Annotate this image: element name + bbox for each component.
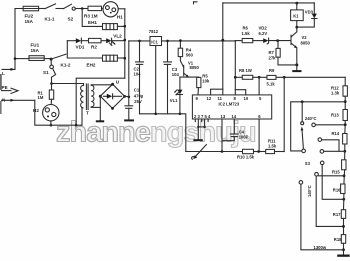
transformer core [85, 84, 87, 110]
ground (bottom right) [337, 255, 350, 257]
svg-text:1M: 1M [38, 95, 44, 100]
svg-text:13: 13 [221, 114, 226, 119]
svg-text:R13: R13 [331, 113, 339, 118]
svg-text:R9: R9 [269, 68, 275, 73]
regulator IC1 7812 [150, 37, 162, 46]
svg-text:R6: R6 [243, 26, 249, 31]
resistor R15 [342, 160, 346, 170]
svg-text:L: L [2, 71, 5, 76]
contact c5 [320, 161, 324, 165]
wire: feedback riser [283, 77, 285, 151]
ground rail [140, 114, 186, 152]
svg-text:VD1: VD1 [76, 45, 85, 50]
svg-text:H1: H1 [117, 15, 123, 20]
capacitor C4 [233, 119, 235, 134]
wire: V+ riser pin 11 [222, 3, 224, 95]
svg-text:10: 10 [244, 96, 249, 101]
svg-text:VD3: VD3 [305, 10, 314, 15]
wire: bottom neutral [35, 100, 82, 125]
resistor R13 [343, 110, 347, 121]
resistor R14 [343, 134, 347, 145]
svg-text:8050: 8050 [301, 41, 311, 46]
switch S2 [64, 4, 72, 8]
svg-text:6.2V: 6.2V [259, 31, 268, 36]
svg-text:VD2: VD2 [259, 26, 268, 31]
contact c4 [315, 172, 319, 176]
rheostat wiper [194, 145, 206, 158]
svg-text:EH1: EH1 [88, 20, 97, 25]
svg-text:1.3k: 1.3k [331, 91, 340, 96]
wire: right vertical of lamp branch [124, 9, 126, 78]
wire: riser pin 8 [234, 41, 236, 95]
svg-text:5.1k: 5.1k [267, 82, 276, 87]
svg-text:15A: 15A [25, 19, 34, 24]
capacitor C2 [139, 41, 141, 62]
stray mark [194, 2, 198, 4]
wire: VD1 branch tap [66, 41, 68, 58]
wire [118, 8, 125, 10]
svg-text:K1-1: K1-1 [45, 17, 55, 22]
resistor R18 [341, 235, 345, 244]
transistor V2 [292, 32, 297, 37]
contact c1 [312, 123, 316, 127]
svg-text:FU1: FU1 [31, 43, 40, 48]
svg-text:K1: K1 [293, 13, 299, 18]
svg-text:EH2: EH2 [87, 63, 96, 68]
svg-text:25V: 25V [134, 99, 142, 104]
relay K1 [296, 3, 298, 10]
wire: heater return [76, 78, 125, 125]
svg-text:VL2: VL2 [113, 34, 122, 39]
svg-text:10k: 10k [202, 79, 210, 84]
resistor R3 [88, 6, 102, 10]
wire [75, 8, 88, 10]
wire bridge to C1 [125, 95, 129, 97]
switch K1-2 [51, 54, 66, 59]
edge smudges [0, 74, 2, 90]
switch S1 [50, 60, 52, 65]
resistor R4 [179, 41, 181, 49]
svg-text:1.5k: 1.5k [242, 31, 251, 36]
watermark [56, 117, 256, 149]
wire: top relay feed [223, 2, 314, 4]
resistor R10 [243, 149, 254, 153]
wire: right column top [344, 77, 346, 86]
switch K1-1 [45, 4, 56, 9]
svg-text:15A: 15A [31, 48, 40, 53]
resistor R8 [235, 76, 242, 78]
lamp H2 [50, 99, 52, 104]
zener VD2 [263, 38, 268, 43]
svg-text:S2: S2 [68, 17, 74, 22]
resistor R2 [89, 38, 102, 42]
thermostat 240C [301, 102, 303, 122]
LED VL1 [179, 77, 181, 90]
svg-text:R16: R16 [333, 188, 341, 193]
svg-text:R7: R7 [269, 50, 275, 55]
svg-text:12: 12 [207, 96, 212, 101]
svg-text:S3: S3 [305, 161, 311, 166]
transformer T secondary [91, 85, 94, 107]
wire: pin 13 riser [221, 119, 223, 152]
svg-text:T: T [86, 111, 89, 116]
svg-text:V2: V2 [302, 35, 308, 40]
svg-text:560: 560 [186, 53, 194, 58]
LED VL2 [106, 38, 111, 43]
node [81, 7, 84, 10]
wire [56, 8, 64, 10]
wire: riser pin 5 [258, 77, 260, 95]
svg-text:VL1: VL1 [170, 98, 178, 103]
capacitor C3 [167, 41, 169, 62]
IC U2 LM723 [192, 95, 271, 119]
svg-text:240°C: 240°C [305, 116, 317, 121]
diode VD1 [67, 40, 76, 42]
svg-text:C1: C1 [134, 88, 140, 93]
fuse FU1 [15, 58, 29, 60]
svg-text:104: 104 [172, 72, 180, 77]
resistor R9 [267, 75, 276, 79]
resistor R12 [343, 86, 347, 96]
svg-text:U: U [116, 80, 120, 85]
svg-text:R14: R14 [332, 131, 340, 136]
svg-text:1.5k: 1.5k [268, 143, 277, 148]
svg-text:8050: 8050 [190, 65, 200, 70]
wire: bottom rail [186, 151, 243, 153]
svg-text:H2: H2 [33, 108, 39, 113]
transistor V1 [180, 57, 183, 68]
resistor R5 [197, 77, 201, 87]
svg-text:11: 11 [218, 96, 223, 101]
fuse FU2 [23, 6, 38, 11]
svg-text:R2: R2 [91, 45, 97, 50]
svg-text:100P: 100P [239, 135, 249, 140]
ground (C1) [124, 119, 134, 121]
svg-text:R10 1.5k: R10 1.5k [237, 155, 255, 160]
svg-text:104: 104 [134, 72, 142, 77]
pin 10 jog [235, 90, 245, 95]
bridge rectifier U [100, 84, 124, 108]
contact c3 [320, 150, 324, 154]
wire: pin 6 riser [258, 119, 260, 152]
thermostat 140C [299, 181, 303, 185]
svg-text:R3 1M: R3 1M [84, 14, 98, 19]
transformer T primary [81, 108, 83, 125]
svg-text:7812: 7812 [149, 29, 159, 34]
resistor R11 [266, 149, 275, 153]
svg-text:IC2 LM723: IC2 LM723 [219, 102, 240, 107]
resistor R6 [235, 40, 242, 42]
selector S3 common [302, 149, 306, 153]
contact c2 [318, 138, 322, 142]
svg-text:FU2: FU2 [25, 14, 34, 19]
resistor R17 [341, 210, 345, 219]
svg-text:1300w: 1300w [314, 245, 327, 250]
svg-text:K1-2: K1-2 [61, 63, 71, 68]
heater EH1 [82, 9, 102, 26]
ground (IC2) [197, 119, 199, 127]
wire: mains left vertical [2, 9, 23, 70]
svg-text:470μ: 470μ [134, 94, 144, 99]
resistor R16 [341, 184, 345, 194]
resistor R1 [49, 90, 53, 99]
svg-text:IC1: IC1 [151, 39, 158, 44]
ground (transformer) [99, 96, 101, 120]
svg-text:140°C: 140°C [307, 185, 312, 197]
svg-text:S1: S1 [43, 70, 49, 75]
ground (V2) [296, 65, 298, 70]
capacitor C1 [128, 41, 130, 106]
wire: 12V rail [129, 40, 150, 42]
svg-text:R18: R18 [334, 237, 342, 242]
pin stubs [194, 119, 196, 122]
wire: node 102 [291, 102, 346, 151]
heater EH2 [67, 57, 102, 59]
lamp H1 [102, 8, 104, 10]
svg-text:R15: R15 [332, 170, 340, 175]
svg-text:R8 1W: R8 1W [239, 68, 252, 73]
pin 12 jog [211, 89, 223, 95]
svg-text:PE: PE [2, 85, 8, 90]
svg-text:R17: R17 [333, 212, 341, 217]
wire [39, 8, 45, 10]
resistor R7 [277, 41, 279, 49]
wire to transformer primary [52, 84, 84, 86]
diode VD3 [313, 3, 315, 14]
svg-text:27k: 27k [269, 56, 277, 61]
